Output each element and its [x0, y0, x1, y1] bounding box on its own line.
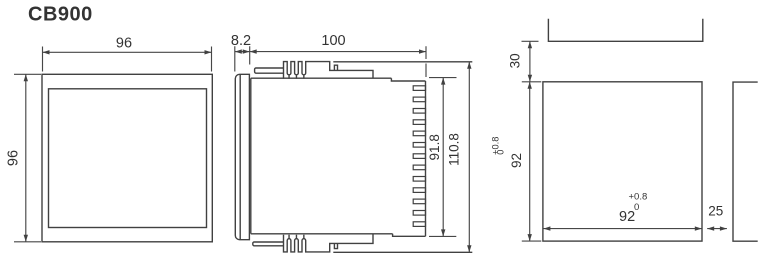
body top line: [251, 77, 392, 79]
svg-text:0: 0: [496, 150, 506, 155]
svg-text:0: 0: [634, 202, 639, 213]
svg-text:92: 92: [509, 153, 524, 168]
arrows 30: [528, 41, 532, 48]
110.8 dim line: [468, 62, 470, 253]
front top dim line 96: [43, 51, 212, 53]
top small notch: [334, 65, 337, 70]
top rear step: [391, 78, 425, 81]
front left dim line 96: [25, 74, 27, 242]
adjacent unit above: [548, 19, 702, 42]
svg-text:110.8: 110.8: [447, 133, 462, 166]
arrows 100: [250, 49, 257, 53]
91.8 dim extension lines: [429, 78, 457, 237]
svg-text:+0.8: +0.8: [629, 192, 648, 203]
bottom rear step: [393, 234, 426, 237]
adjacent unit right: [733, 82, 758, 241]
rear bottom flange line: [333, 251, 472, 253]
svg-text:100: 100: [321, 33, 345, 49]
bottom clip stubs: [289, 235, 304, 239]
side dim line 8.2: [235, 51, 250, 53]
front left dim extension lines: [14, 74, 41, 242]
cutout ticks: [522, 41, 542, 241]
front view outer bezel square: [42, 74, 212, 242]
svg-text:8.2: 8.2: [231, 33, 251, 49]
top clip stubs: [289, 75, 304, 79]
svg-text:CB900: CB900: [28, 4, 93, 26]
bezel inner line: [239, 75, 241, 240]
svg-text:91.8: 91.8: [427, 134, 442, 160]
svg-text:92: 92: [619, 209, 635, 225]
91.8 dim line: [442, 78, 444, 237]
bottom clip meander: [284, 234, 374, 252]
svg-text:30: 30: [507, 53, 522, 68]
top clip meander: [284, 62, 374, 79]
svg-text:96: 96: [6, 150, 22, 166]
arrows 110.8: [467, 62, 471, 69]
front top dim arrows: [24, 50, 212, 242]
side dim line 100: [250, 51, 426, 53]
terminal teeth: [413, 86, 425, 227]
front view inner window: [49, 89, 207, 228]
25 dim line: [707, 228, 727, 230]
arrows 25: [707, 226, 714, 230]
side dim extension lines 8.2 / 100: [235, 46, 426, 77]
svg-text:96: 96: [116, 36, 132, 52]
bottom slide bar: [253, 242, 284, 246]
bezel side profile: [235, 74, 249, 239]
arrows 92 left: [528, 82, 532, 89]
top slide bar: [255, 68, 284, 73]
body bottom line: [251, 233, 393, 235]
body front wall: [250, 78, 252, 234]
front top dim extension lines: [43, 47, 212, 72]
panel cutout square: [543, 82, 702, 241]
arrows 91.8: [441, 78, 445, 85]
bottom small notch: [334, 243, 337, 248]
terminal spine: [425, 81, 427, 236]
svg-text:25: 25: [708, 204, 723, 219]
arrows 92 inner: [543, 226, 550, 230]
30 dim line: [529, 41, 531, 82]
92 inner dim line: [543, 228, 701, 230]
rear top flange line: [333, 61, 472, 63]
92 left dim line: [529, 82, 531, 241]
arrows 8.2: [235, 49, 242, 53]
